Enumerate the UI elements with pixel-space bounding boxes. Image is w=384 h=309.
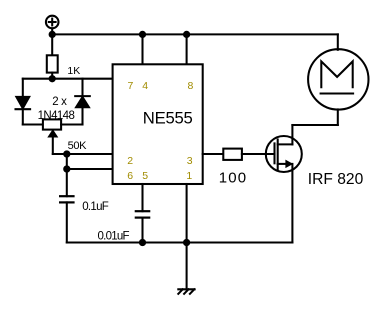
potentiometer wiper arrow <box>48 130 57 137</box>
wire rail to pin 4 <box>141 34 143 64</box>
node dot pin2 branch <box>64 151 69 156</box>
node dot pin1 bottom <box>184 240 189 245</box>
wire down to capacitor C1 <box>66 169 68 196</box>
wire bottom ground rail <box>67 241 293 243</box>
transistor Q1 IRF 820 MOSFET <box>266 136 302 172</box>
svg-text:8: 8 <box>188 80 194 92</box>
node dot pin6 branch <box>64 166 69 171</box>
node dot C2 bottom <box>140 240 145 245</box>
wire up to D2 <box>81 107 83 124</box>
node dot at top rail junction <box>50 32 55 37</box>
svg-text:100: 100 <box>219 170 248 187</box>
op IC NE555 U1 body <box>113 64 203 184</box>
svg-text:2: 2 <box>127 155 133 167</box>
wire rail down to resistor R1 <box>51 34 53 55</box>
resistor R1 1K <box>47 55 58 72</box>
wire pin 1 down to rail <box>186 184 188 243</box>
wire R2 to MOSFET gate <box>242 153 275 155</box>
diode D1 1N4148 (cathode down) <box>16 97 31 109</box>
wire D1 to pot line <box>22 109 24 124</box>
svg-text:1N4148: 1N4148 <box>38 110 75 122</box>
svg-text:0.1uF: 0.1uF <box>82 201 109 213</box>
node dot under R1 <box>50 76 55 81</box>
wire rail to pin 8 <box>186 34 188 64</box>
wire source down to rail <box>291 164 293 243</box>
wire rail to ground <box>186 243 188 290</box>
svg-text:50K: 50K <box>68 140 88 152</box>
wire between pin2 and pin6 lines <box>66 154 68 169</box>
wire D2 top to node line <box>81 79 83 96</box>
svg-text:1K: 1K <box>67 65 80 77</box>
capacitor C2 0.01uF <box>136 211 149 217</box>
wire top rail <box>52 33 338 35</box>
node dot pin8 <box>184 32 189 37</box>
power supply positive terminal symbol <box>46 16 59 29</box>
wire node line to pin 7 <box>23 78 113 80</box>
svg-text:4: 4 <box>142 80 148 92</box>
svg-text:2 x: 2 x <box>52 96 67 108</box>
diode D2 1N4148 (cathode up) <box>75 96 90 107</box>
ground symbol <box>178 289 194 294</box>
motor M1 <box>308 49 368 109</box>
svg-text:6: 6 <box>127 170 133 182</box>
wire up to motor bottom <box>337 109 339 125</box>
wire pin 3 to resistor R2 <box>203 153 224 155</box>
wire drain up <box>291 125 293 144</box>
wire R1 bottom to node <box>51 73 53 79</box>
wire from power terminal to top rail <box>51 28 53 34</box>
wire to potentiometer left <box>23 123 43 125</box>
potentiometer 50K body <box>43 119 61 129</box>
wire pot right to diode D2 <box>61 123 82 125</box>
svg-text:7: 7 <box>128 80 134 92</box>
wire C2 bottom to rail <box>141 218 143 243</box>
resistor R2 100 <box>223 149 242 160</box>
svg-text:5: 5 <box>142 170 148 182</box>
node dot pin4 <box>140 32 145 37</box>
wire down to diode D1 <box>22 79 24 97</box>
wire to pin 2 <box>53 153 113 155</box>
wire pin 5 down to C2 <box>141 184 143 211</box>
svg-text:0.01uF: 0.01uF <box>98 231 130 243</box>
svg-text:NE555: NE555 <box>143 109 193 128</box>
wire drain to motor <box>292 124 337 126</box>
wire rail down to motor <box>337 34 339 49</box>
capacitor C1 0.1uF <box>60 196 73 202</box>
svg-text:1: 1 <box>186 170 192 182</box>
svg-text:3: 3 <box>187 155 193 167</box>
wire to pin 6 <box>67 168 113 170</box>
wire wiper down <box>52 137 54 154</box>
wire C1 bottom to ground rail <box>66 202 68 242</box>
svg-text:IRF 820: IRF 820 <box>308 171 364 188</box>
